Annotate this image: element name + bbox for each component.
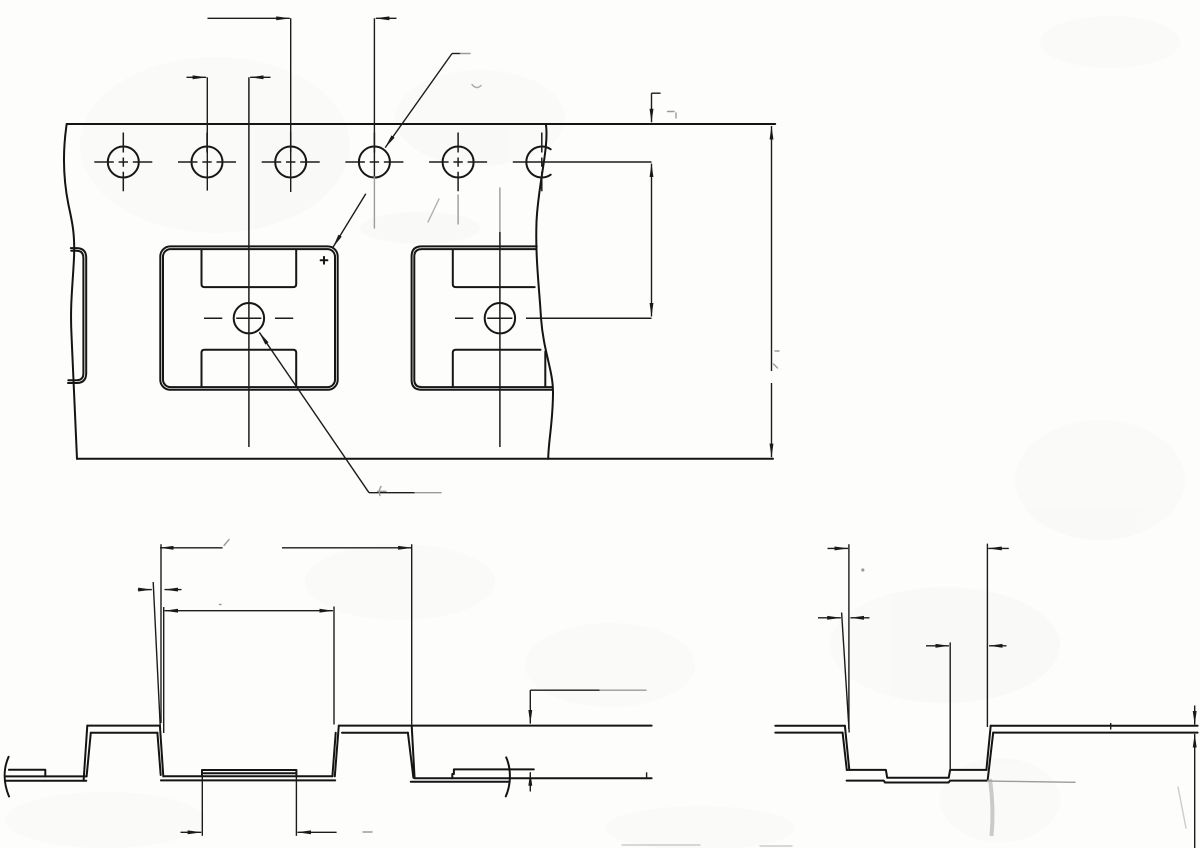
pocket right wall (section B) <box>986 726 993 781</box>
pocket 0 (clipped at left edge) outer <box>68 248 86 383</box>
pocket 0 inner <box>68 251 83 380</box>
left tape sheet <box>775 726 845 733</box>
right pedestal tab <box>452 769 534 778</box>
dimension W (tape width) <box>772 126 780 457</box>
pocket 2 outer (clipped) <box>412 246 553 389</box>
leader to pocket 1 center hole <box>259 332 441 495</box>
dimension top opening (right section) <box>828 544 1009 729</box>
dimension A0 (pocket opening) <box>164 605 334 734</box>
erased section label streak <box>990 779 993 836</box>
left break line <box>5 757 9 797</box>
pocket 2 bottom shoulder <box>453 350 541 387</box>
sprocket hole 4 <box>345 133 403 178</box>
leader to pocket 1 corner <box>333 194 366 247</box>
pocket 1 horizontal centerline <box>204 317 293 319</box>
pocket 2 center hole <box>485 303 515 333</box>
dimension K1 (depth to pedestal) leader <box>530 690 646 791</box>
joint tick on tape surface <box>1110 723 1112 730</box>
pocket 1 floor (section) <box>161 776 335 780</box>
pocket 2 bottom shoulder right edge <box>544 352 546 387</box>
right tape sheet <box>991 726 1198 733</box>
dimension 2.0 (hole to pocket center) <box>187 77 271 190</box>
dimension E leader (edge to hole) <box>652 93 677 122</box>
pocket 1 top shoulder <box>202 250 297 287</box>
right break line <box>506 757 510 796</box>
pocket 1 right wall (section) <box>332 726 338 777</box>
pocket 1 corner reference cross <box>321 257 328 264</box>
fading bottom trace <box>988 781 1075 782</box>
faint corner streak <box>1178 787 1186 828</box>
dimension pedestal width <box>181 771 373 836</box>
faint bottom streaks <box>622 845 792 846</box>
tape bottom edge <box>77 458 773 460</box>
tape left break edge <box>64 124 77 459</box>
leader to sprocket hole 4 <box>385 54 470 148</box>
land 2 right wall <box>408 726 415 778</box>
pocket 1 pedestal (section) <box>202 770 296 776</box>
wall draft extension (right section) <box>842 613 850 733</box>
sprocket hole 3 <box>262 133 320 178</box>
pocket 2 vertical centerline (upper faded) <box>499 188 501 232</box>
pocket 1 bottom shoulder <box>202 350 297 387</box>
dimension P0 (hole pitch) <box>208 18 397 228</box>
pocket 1 outer <box>160 246 337 389</box>
pocket left wall (section B) <box>843 726 850 770</box>
left pedestal tab <box>9 770 45 777</box>
erased sketch marks between holes <box>428 199 439 222</box>
tick at floor extension end <box>646 772 648 778</box>
pocket floor with center recess <box>847 770 987 778</box>
sprocket hole 5 <box>429 133 487 225</box>
dimension floor recess (right section) <box>926 642 1007 769</box>
dimension F (hole line to pocket line) <box>651 164 653 317</box>
right pocket floor strip + extension <box>411 778 652 781</box>
wall draft extension line <box>153 582 160 726</box>
sprocket hole 2 <box>178 133 236 178</box>
pocket 2 horizontal centerline + extension to dimension F <box>455 317 652 319</box>
land 1 top <box>87 726 160 733</box>
pocket 2 inner (clipped) <box>414 249 552 387</box>
land 2 top + surface extension line <box>339 726 652 733</box>
dimension tape thickness t <box>1194 706 1196 848</box>
wall draft arrows (right section) <box>818 617 870 619</box>
land 1 left wall <box>84 726 91 781</box>
pocket bottom outline <box>847 781 988 783</box>
erased dot <box>861 568 864 571</box>
pocket 1 left wall (section) <box>157 726 163 777</box>
left pocket floor strip <box>6 776 87 780</box>
pocket 1 center hole <box>234 303 264 333</box>
pocket 2 top shoulder <box>453 250 535 287</box>
tape right break edge <box>536 125 553 459</box>
erased mark near leader <box>472 85 481 88</box>
sprocket hole 1 <box>94 133 152 192</box>
sprocket hole 6 (clipped by break) <box>513 133 652 192</box>
pocket 1 vertical centerline <box>248 77 250 447</box>
pocket 1 inner <box>163 249 335 387</box>
wall draft dimension arrows <box>138 589 182 591</box>
dimension P1 (pocket pitch) <box>160 540 412 725</box>
tape top edge <box>67 123 776 125</box>
